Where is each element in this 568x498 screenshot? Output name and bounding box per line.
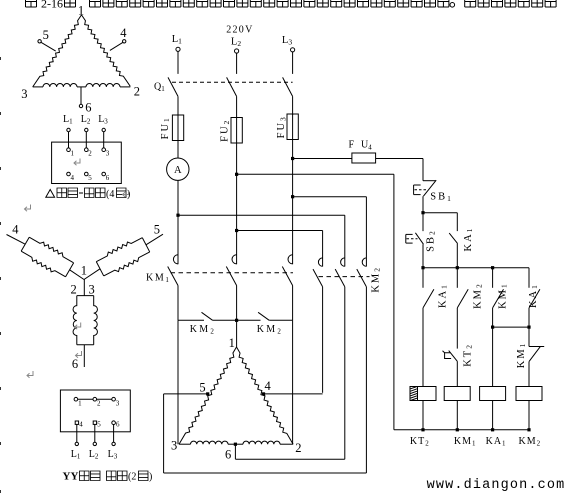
svg-text:3: 3 bbox=[171, 439, 177, 453]
svg-text:4: 4 bbox=[71, 174, 75, 182]
svg-text:1: 1 bbox=[81, 264, 87, 278]
svg-text:6: 6 bbox=[116, 421, 120, 429]
svg-text:F U: F U bbox=[349, 140, 371, 151]
svg-text:4: 4 bbox=[79, 421, 83, 429]
svg-text:220V: 220V bbox=[226, 25, 253, 36]
svg-text:KM1: KM1 bbox=[516, 342, 527, 369]
svg-text:3: 3 bbox=[21, 87, 27, 101]
svg-text:SB2: SB2 bbox=[425, 229, 436, 252]
svg-text:L3: L3 bbox=[282, 35, 292, 47]
svg-text:FU1: FU1 bbox=[160, 116, 171, 139]
svg-text:4: 4 bbox=[368, 143, 372, 151]
svg-text:YY: YY bbox=[63, 471, 79, 483]
svg-text:KM2: KM2 bbox=[472, 282, 483, 309]
svg-text:6: 6 bbox=[106, 174, 110, 182]
svg-text:1: 1 bbox=[78, 4, 84, 18]
svg-text:5: 5 bbox=[88, 174, 92, 182]
svg-text:KA1: KA1 bbox=[463, 227, 474, 252]
svg-text:A: A bbox=[174, 165, 182, 176]
svg-text:6: 6 bbox=[225, 447, 231, 461]
svg-text:SB1: SB1 bbox=[430, 191, 453, 203]
svg-text:2: 2 bbox=[134, 85, 140, 99]
svg-text:3: 3 bbox=[116, 399, 120, 407]
svg-text:3: 3 bbox=[89, 283, 95, 297]
svg-text:3: 3 bbox=[106, 150, 110, 158]
svg-text:1: 1 bbox=[78, 399, 82, 407]
svg-text:4: 4 bbox=[120, 26, 127, 40]
svg-text:L1: L1 bbox=[172, 34, 182, 46]
svg-text:6: 6 bbox=[72, 357, 78, 371]
svg-text:FU3: FU3 bbox=[276, 115, 287, 138]
svg-text:FU2: FU2 bbox=[220, 119, 231, 142]
svg-text:2: 2 bbox=[97, 399, 101, 407]
svg-text:): ) bbox=[149, 472, 152, 483]
svg-text:KM1: KM1 bbox=[497, 282, 508, 309]
svg-text:5: 5 bbox=[199, 380, 205, 394]
svg-text:KM2: KM2 bbox=[370, 266, 381, 293]
svg-text:4: 4 bbox=[12, 223, 19, 237]
svg-text:KT2: KT2 bbox=[462, 343, 473, 367]
svg-text:2: 2 bbox=[71, 283, 77, 297]
svg-text:1: 1 bbox=[229, 336, 235, 350]
svg-text:2: 2 bbox=[295, 441, 301, 455]
svg-text:1: 1 bbox=[71, 150, 75, 158]
svg-text:5: 5 bbox=[43, 28, 49, 42]
svg-text:KA1: KA1 bbox=[437, 283, 448, 308]
svg-text:L2: L2 bbox=[231, 36, 241, 48]
svg-text:2: 2 bbox=[88, 150, 92, 158]
svg-text:5: 5 bbox=[154, 223, 160, 237]
svg-text:4: 4 bbox=[265, 379, 272, 393]
svg-text:6: 6 bbox=[85, 101, 91, 115]
svg-text:(4: (4 bbox=[106, 189, 114, 200]
svg-text:KA1: KA1 bbox=[528, 283, 539, 308]
svg-text:5: 5 bbox=[97, 421, 101, 429]
svg-text:(2: (2 bbox=[128, 472, 136, 483]
svg-text:2-16: 2-16 bbox=[41, 0, 63, 11]
svg-text:www.diangon.com: www.diangon.com bbox=[427, 478, 566, 493]
